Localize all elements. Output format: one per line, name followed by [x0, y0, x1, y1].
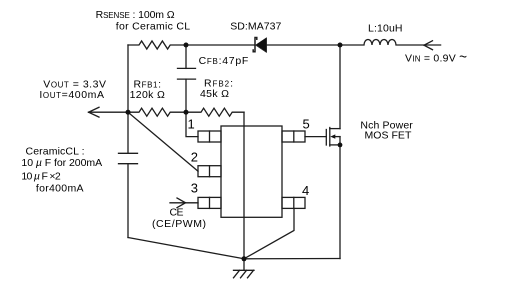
transistor Q1 Nch Power MOS FET: [326, 128, 340, 147]
node C junction dot: [126, 110, 131, 115]
svg-text:CFB:47pF: CFB:47pF: [199, 55, 249, 67]
wire left vertical RSENSE to VOUT node: [127, 45, 129, 112]
MOSFET source junction dot: [338, 143, 343, 148]
svg-text:SD:MA737: SD:MA737: [230, 21, 281, 33]
pin number 3: [191, 180, 198, 195]
wire node A to diode cathode: [186, 44, 255, 46]
label RFB2 value: [200, 88, 229, 100]
label 10uF x2: [21, 171, 60, 183]
wire MOSFET source down: [339, 137, 341, 259]
node D junction dot: [184, 110, 189, 115]
label CFB value: [199, 55, 249, 67]
svg-text:L:10uH: L:10uH: [368, 23, 403, 35]
wire pin 5 to MOSFET gate: [305, 136, 326, 138]
label CE/PWM: [152, 218, 206, 230]
svg-text:(CE/PWM): (CE/PWM): [152, 218, 206, 230]
wire node C to pin 2 (diagonal): [128, 112, 198, 171]
pin 2: [198, 166, 221, 177]
label SD:MA737: [230, 21, 281, 33]
svg-text:RSENSE : 100m Ω: RSENSE : 100m Ω: [96, 9, 175, 21]
VOUT output arrow: [89, 107, 100, 117]
pin number 4: [302, 183, 309, 198]
node B junction dot: [338, 43, 343, 48]
svg-text:120k Ω: 120k Ω: [130, 89, 165, 101]
wire diode anode to node B: [267, 44, 340, 46]
pin number 2: [191, 150, 198, 165]
svg-text:10 µ F for 200mA: 10 µ F for 200mA: [21, 157, 102, 169]
wire VOUT line to node C: [89, 111, 129, 113]
pin 3: [198, 197, 221, 208]
pin number 5: [303, 116, 310, 131]
inductor L 10uH: [340, 40, 441, 46]
label Nch Power: [360, 120, 413, 132]
label CeramicCL: [26, 146, 85, 158]
svg-text:VIN = 0.9V ~: VIN = 0.9V ~: [405, 50, 467, 65]
svg-text:10 µ F ×2: 10 µ F ×2: [21, 171, 60, 183]
ground: [234, 259, 255, 278]
wire node D to pin 1: [186, 112, 198, 136]
wire CE to pin 3: [170, 202, 198, 204]
label for Ceramic CL: [116, 21, 190, 33]
pin 5: [282, 131, 305, 142]
capacitor CL: [119, 153, 138, 163]
svg-text:CE: CE: [170, 207, 184, 219]
label VOUT value: [43, 79, 106, 91]
capacitor CL lead bottom: [127, 164, 129, 238]
svg-text:45k Ω: 45k Ω: [200, 88, 229, 100]
svg-text:for400mA: for400mA: [36, 183, 84, 195]
label L:10uH: [368, 23, 403, 35]
ground node junction dot: [242, 256, 247, 261]
wire bottom to ground node: [244, 258, 340, 260]
label CE: [170, 207, 184, 219]
svg-text:1: 1: [188, 116, 195, 131]
label for400mA: [36, 183, 84, 195]
wire node B down to MOSFET drain: [339, 45, 341, 129]
resistor RFB2: [186, 108, 244, 116]
label VIN value: [405, 50, 467, 65]
label MOS FET: [365, 130, 412, 142]
label RFB1 name: [134, 79, 162, 91]
label RFB1 value: [130, 89, 165, 101]
svg-text:2: 2: [191, 150, 198, 165]
resistor RFB1: [128, 108, 186, 116]
svg-text:for Ceramic CL: for Ceramic CL: [116, 21, 190, 33]
svg-text:5: 5: [303, 116, 310, 131]
node A junction dot: [184, 43, 189, 48]
IC U1 body: [221, 126, 282, 217]
resistor RSENSE: [128, 41, 186, 49]
svg-text:IOUT=400mA: IOUT=400mA: [39, 89, 104, 101]
pin 4: [282, 197, 305, 208]
VIN input arrow: [424, 41, 433, 50]
label IOUT value: [39, 89, 104, 101]
CE input arrow: [177, 198, 186, 208]
diode SD MA737 (Schottky): [253, 38, 266, 53]
wire pin 4 to ground node: [244, 208, 294, 258]
svg-text:CeramicCL :: CeramicCL :: [26, 146, 85, 158]
pin 1: [198, 131, 221, 142]
label 10uF for 200mA: [21, 157, 102, 169]
capacitor CFB: [178, 68, 196, 79]
wire CL to ground node (diagonal): [128, 238, 244, 259]
capacitor CFB lead top: [185, 45, 187, 68]
label RFB2 name: [204, 78, 233, 90]
capacitor CFB lead bottom: [185, 79, 187, 112]
pin number 1: [188, 116, 195, 131]
wire RFB2 to ground (vertical through IC): [243, 112, 245, 259]
svg-text:MOS FET: MOS FET: [365, 130, 412, 142]
svg-text:3: 3: [191, 180, 198, 195]
capacitor CL lead top: [127, 112, 129, 153]
svg-text:4: 4: [302, 183, 309, 198]
label RSENSE value: [96, 9, 175, 21]
